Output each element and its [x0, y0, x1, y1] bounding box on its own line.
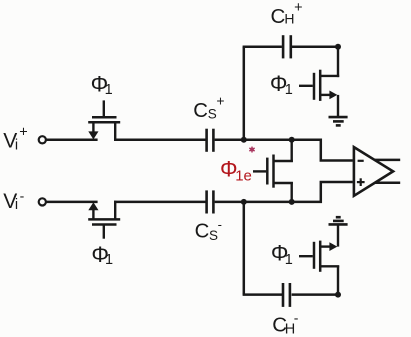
wire Vi+ terminal to M1 source [46, 139, 97, 142]
wire op-amp output positive [374, 159, 400, 162]
wire M2 drain to Cs- [114, 201, 206, 204]
label phi1 of M2 [91, 242, 113, 268]
svg-text:+: + [216, 93, 224, 109]
label Cs- [195, 217, 222, 243]
wire Cs- to node D to node E [215, 201, 293, 204]
label phi1e (red) [220, 157, 252, 185]
svg-text:-: - [20, 188, 25, 204]
svg-text:i: i [15, 197, 18, 213]
svg-text:-: - [294, 309, 299, 325]
transistor M3 (phi1 reset switch, top) [299, 47, 339, 117]
node E junction dot [289, 199, 295, 205]
svg-text:1: 1 [105, 82, 113, 98]
node C junction dot [335, 44, 341, 50]
wire Vi- terminal to M2 source [46, 201, 97, 204]
svg-text:+: + [19, 125, 27, 141]
svg-text:+: + [294, 0, 302, 16]
svg-text:-: - [218, 217, 222, 232]
ground bottom (inverted) [329, 217, 348, 224]
wire node B to op-amp inverting input [292, 140, 353, 161]
svg-text:C: C [195, 221, 210, 243]
label phi1 of M4 [271, 241, 293, 268]
terminal Vi- [39, 198, 46, 205]
wire op-amp output negative [375, 181, 401, 184]
svg-text:1: 1 [285, 82, 293, 98]
svg-text:C: C [271, 5, 286, 28]
capacitor Cs+ [207, 129, 214, 152]
node Vi- label [3, 188, 24, 214]
ground top [329, 117, 348, 125]
node F junction dot [335, 292, 341, 298]
svg-text:1e: 1e [235, 167, 252, 184]
node A junction dot [241, 137, 247, 143]
wire M1 drain to Cs+ [114, 139, 206, 142]
transistor M2 (phi1 switch, Vi- path) [88, 201, 120, 239]
node B junction dot [289, 137, 295, 143]
transistor M5 (phi1e switch, middle) [253, 140, 293, 202]
label Ch+ [271, 0, 303, 28]
wire Ch+ right segment to node C [292, 46, 338, 49]
transistor M4 (phi1 reset switch, bottom) [299, 225, 339, 295]
transistor M1 (phi1 switch, Vi+ path) [88, 100, 120, 141]
label phi1 of M3 [270, 71, 293, 98]
label phi1 of M1 [91, 72, 113, 98]
svg-text:1: 1 [285, 252, 293, 268]
wire Ch- left segment [243, 293, 283, 296]
op-amp U1 [354, 147, 393, 196]
wire node E to op-amp non-inverting input [292, 182, 353, 202]
red asterisk marker [250, 147, 254, 152]
capacitor Ch- [283, 283, 290, 307]
svg-text:H: H [284, 10, 294, 26]
node D junction dot [241, 199, 247, 205]
svg-text:C: C [193, 100, 208, 122]
wire Cs+ to node A to node B [215, 139, 293, 142]
capacitor Cs- [207, 190, 214, 213]
wire Ch- right segment to node F [292, 293, 338, 296]
node Vi+ label [3, 125, 28, 154]
label Ch- [272, 309, 298, 337]
label Cs+ [193, 93, 224, 122]
svg-text:1: 1 [105, 252, 113, 268]
wire Ch+ left segment [243, 46, 282, 49]
terminal Vi+ [39, 136, 46, 143]
svg-text:i: i [15, 137, 18, 153]
capacitor Ch+ [283, 35, 291, 58]
wire node D down to Ch- [243, 202, 246, 295]
wire node A up to Ch+ [243, 47, 246, 140]
